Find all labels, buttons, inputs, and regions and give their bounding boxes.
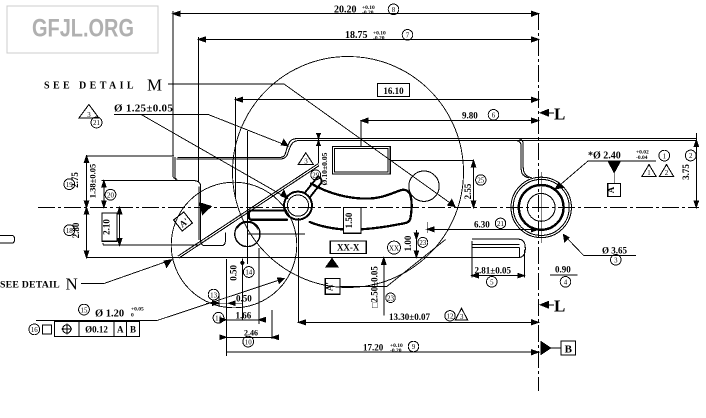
vertical section line L [538, 13, 540, 391]
dim 20.20 line [173, 13, 539, 15]
2.55 ext line [390, 159, 474, 161]
svg-text:1.38±0.05: 1.38±0.05 [88, 164, 98, 198]
hole N centerline horizontal [247, 233, 305, 235]
leader dia 2.40 [555, 161, 656, 189]
notch ledge [102, 180, 182, 182]
svg-text:GFJL.ORG: GFJL.ORG [32, 15, 134, 43]
svg-text:2.81±0.05: 2.81±0.05 [475, 265, 512, 275]
boss outer circle 1 [511, 177, 571, 237]
svg-text:2.10: 2.10 [102, 219, 112, 235]
svg-text:A': A' [325, 282, 335, 291]
svg-text:Ø 3.65: Ø 3.65 [602, 245, 628, 255]
part: flange top double [178, 139, 697, 158]
svg-text:12: 12 [447, 314, 454, 321]
cam left bar [249, 210, 287, 219]
2.55 dim line [473, 160, 475, 207]
boss outer circle 2 [513, 179, 569, 235]
svg-text:1.00: 1.00 [403, 235, 413, 251]
svg-text:2.55: 2.55 [463, 183, 473, 199]
balloon 21b [495, 218, 505, 228]
dim 2.50 [383, 258, 385, 316]
left fragment [0, 235, 15, 243]
balloon 18 [64, 225, 75, 236]
svg-text:2.46: 2.46 [244, 328, 258, 337]
leader dia 3.65 [564, 235, 637, 256]
svg-text:-0.20: -0.20 [373, 35, 385, 41]
box 16.10 [378, 84, 410, 97]
svg-text:2: 2 [689, 153, 693, 160]
section arrow left [200, 203, 212, 215]
balloon 2 [685, 150, 696, 161]
svg-text:3: 3 [87, 112, 91, 119]
svg-text:13.30±0.07: 13.30±0.07 [389, 312, 430, 322]
ext line 16.10 [235, 97, 237, 197]
balloon 23b [386, 293, 396, 303]
svg-text:16: 16 [31, 327, 38, 334]
balloon 6 [488, 110, 499, 121]
svg-text:3: 3 [614, 258, 618, 265]
A' box left [174, 212, 193, 231]
svg-text:N: N [66, 275, 78, 294]
svg-text:2: 2 [665, 170, 669, 177]
dim 16.10 line [236, 99, 539, 101]
svg-text:L: L [554, 105, 565, 124]
svg-text:21: 21 [497, 221, 504, 228]
balloon 3 [611, 254, 622, 265]
svg-text:Ø 1.20: Ø 1.20 [95, 309, 124, 320]
watermark logo box [7, 6, 158, 53]
dim 3.75 right [695, 133, 697, 207]
svg-text:19: 19 [66, 182, 73, 189]
svg-text:7: 7 [406, 33, 410, 40]
svg-text:14: 14 [245, 270, 252, 277]
triangle flags 1 2 [642, 165, 656, 177]
L mark top [540, 110, 548, 116]
ext line 9.80 [360, 121, 362, 147]
dim 9.80 line [361, 120, 539, 122]
svg-text:-0.20: -0.20 [390, 348, 402, 354]
balloon 5 [487, 277, 498, 288]
svg-text:21: 21 [93, 120, 100, 127]
balloon 21 [91, 117, 102, 128]
svg-text:B: B [130, 325, 136, 335]
svg-text:-0.04: -0.04 [636, 155, 648, 161]
dim 2.46 (10) [226, 336, 272, 338]
svg-text:L: L [554, 297, 565, 316]
cam arm upper [305, 177, 322, 197]
section diagonal A' [178, 164, 318, 256]
gdt frame row [29, 324, 40, 335]
svg-text:18: 18 [66, 228, 73, 235]
triangle 3 mid [298, 153, 313, 165]
dim 1.66 (11) [213, 312, 224, 323]
svg-text:8: 8 [392, 7, 396, 14]
balloon 19 [64, 179, 75, 190]
balloon 20 [105, 189, 116, 200]
revision triangle 3 (upper left) [79, 105, 99, 119]
part: right edge [695, 139, 697, 208]
tab bottom right [472, 239, 526, 257]
ext line 18.75 [197, 37, 199, 182]
hole N centerline vertical [246, 131, 248, 264]
svg-text:3: 3 [460, 314, 464, 321]
leader dia1.25 to pivot [141, 114, 288, 198]
dim 2.81 [472, 241, 525, 278]
ext line 20.20 [172, 11, 174, 156]
dim 18.75 line [198, 38, 538, 40]
circle 2.55 [409, 171, 439, 201]
part: pocket floor [103, 243, 199, 245]
svg-text:23: 23 [387, 296, 394, 303]
svg-text:23: 23 [419, 240, 426, 247]
box 1.50 [344, 208, 362, 234]
svg-text:0.90: 0.90 [555, 264, 571, 274]
balloon 23 [418, 237, 428, 247]
svg-text:XX: XX [389, 245, 399, 252]
balloon 1 [659, 150, 670, 161]
svg-text:0.50: 0.50 [236, 294, 252, 304]
hole N [235, 221, 260, 246]
dia .10 dim line [318, 134, 320, 164]
svg-text:1: 1 [663, 153, 667, 160]
svg-text:SEE DETAIL: SEE DETAIL [0, 280, 60, 291]
svg-text:6: 6 [492, 113, 496, 120]
svg-text:A: A [117, 325, 124, 335]
pivot centerline vertical [297, 218, 299, 323]
svg-text:29: 29 [312, 173, 319, 180]
ladder ext lines [219, 248, 272, 356]
part: step wall double [175, 157, 226, 246]
svg-text:1.50: 1.50 [344, 212, 354, 228]
svg-text:9.80: 9.80 [462, 111, 478, 121]
svg-text:□2.50±0.05: □2.50±0.05 [370, 266, 380, 308]
svg-text:1.66: 1.66 [236, 310, 252, 320]
datum flag A [608, 161, 621, 173]
svg-text:Ø.10±0.05: Ø.10±0.05 [320, 152, 329, 185]
svg-text:4: 4 [564, 280, 568, 287]
svg-text:*Ø 2.40: *Ø 2.40 [588, 151, 621, 162]
svg-text:B: B [565, 344, 573, 356]
svg-text:1: 1 [647, 170, 651, 177]
dim 17.20 (9) [226, 351, 539, 353]
L mark bottom [540, 302, 548, 308]
svg-text:0: 0 [131, 313, 134, 319]
dim 13.30 (12) [299, 321, 539, 323]
leader dia1.25 to flange step [208, 114, 288, 146]
balloon 25 [476, 175, 486, 185]
svg-text:M: M [147, 76, 162, 95]
boss vertical centerline [540, 172, 542, 243]
svg-text:5: 5 [490, 280, 494, 287]
svg-text:-0.20: -0.20 [362, 10, 374, 16]
balloon 29 [311, 170, 321, 180]
svg-text:6.30: 6.30 [474, 219, 490, 229]
svg-text:SEE DETAIL: SEE DETAIL [44, 81, 137, 92]
balloon XX [388, 241, 401, 254]
svg-text:16.10: 16.10 [383, 86, 404, 96]
cam s-band [310, 184, 412, 230]
dim line 2.10 [119, 207, 121, 245]
boss bold circle [519, 185, 564, 230]
svg-text:10: 10 [245, 339, 252, 346]
svg-text:20: 20 [107, 192, 114, 199]
svg-text:3.75: 3.75 [681, 164, 691, 180]
balloon 14 [243, 267, 254, 278]
callout 15 dia 1.20 [79, 304, 90, 315]
svg-text:18.75: 18.75 [345, 30, 368, 41]
pivot ring [284, 192, 312, 220]
part: top edge left section [87, 155, 175, 157]
svg-text:13: 13 [210, 292, 217, 299]
svg-text:15: 15 [81, 307, 88, 314]
svg-text:17.20: 17.20 [363, 342, 384, 352]
svg-text:25: 25 [477, 178, 484, 185]
leader M [168, 84, 455, 207]
dim 0.50 (14) vertical [241, 261, 244, 264]
svg-text:0.50: 0.50 [228, 265, 238, 281]
balloon 8 [388, 4, 399, 15]
dim 6.30 [427, 228, 538, 230]
part: bottom edge [87, 257, 520, 259]
dim 0.90 [550, 274, 578, 276]
datum B flag [541, 342, 551, 355]
svg-text:Ø 1.25±0.05: Ø 1.25±0.05 [114, 103, 173, 115]
balloon 4 [560, 277, 571, 288]
balloon 7 [402, 30, 413, 41]
detail circle N [171, 182, 297, 308]
svg-text:3: 3 [304, 158, 308, 166]
box 2.10 [102, 213, 117, 241]
datum A1 flag [326, 259, 338, 268]
horizontal centerline [38, 206, 699, 208]
dim 1.00 [415, 230, 417, 257]
svg-text:Ø0.12: Ø0.12 [85, 325, 108, 335]
box XX-X [330, 241, 366, 254]
detail circle M [233, 57, 464, 288]
svg-text:XX-X: XX-X [337, 243, 360, 253]
svg-text:20.20: 20.20 [334, 5, 357, 16]
dim 0.50 (13) [208, 289, 219, 300]
part: neck double wall [515, 141, 529, 178]
svg-text:9: 9 [412, 344, 416, 351]
slot rectangle [332, 146, 390, 174]
dim 1.38 [103, 181, 105, 208]
boss inner circle [527, 194, 555, 222]
part: left edge [86, 156, 88, 258]
svg-text:A: A [606, 186, 616, 193]
left dim ticks [84, 156, 88, 163]
